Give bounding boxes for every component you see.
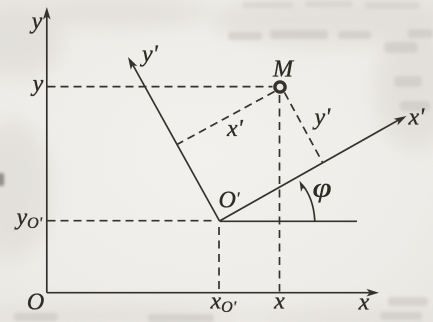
svg-text:O: O: [27, 290, 44, 316]
dashed perpendicular from M to x' axis (y' coordinate): [285, 93, 323, 163]
svg-text:M: M: [272, 57, 295, 83]
svg-text:x': x': [226, 116, 244, 142]
angle phi arc arrowhead: [300, 181, 307, 192]
svg-text:x': x': [408, 105, 426, 131]
svg-text:φ: φ: [313, 173, 332, 203]
x axis arrowhead: [367, 289, 380, 297]
svg-text:y: y: [30, 9, 43, 35]
dashed vertical M to x axis: [279, 95, 281, 292]
dashed vertical O' to x axis: [218, 227, 220, 292]
dashed perpendicular from M to y' axis (x' coordinate): [177, 92, 275, 145]
x' axis: [220, 120, 400, 222]
x axis: [47, 292, 371, 294]
y' axis: [132, 63, 220, 222]
y axis arrowhead: [43, 7, 51, 20]
svg-text:x: x: [358, 290, 370, 316]
y axis: [46, 15, 48, 293]
dashed line y to M: [48, 86, 273, 88]
angle phi arc: [302, 185, 315, 221]
svg-text:x: x: [273, 289, 285, 315]
y' axis arrowhead: [128, 57, 137, 70]
point M circle: [275, 82, 285, 92]
svg-text:y': y': [313, 105, 332, 131]
svg-text:y': y': [140, 42, 159, 68]
dashed line y_O' to O': [48, 220, 217, 222]
x' axis arrowhead: [394, 116, 407, 125]
svg-text:y: y: [31, 71, 44, 97]
left-edge scan mark: [0, 173, 4, 186]
horizontal reference line through O': [220, 220, 358, 222]
